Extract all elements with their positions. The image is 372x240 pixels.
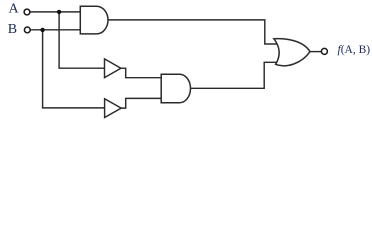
junction dot on A line	[57, 10, 61, 14]
input terminal B	[24, 27, 30, 33]
output terminal	[321, 48, 327, 54]
wire B input to AND1	[30, 29, 81, 31]
OR gate U5	[274, 39, 310, 66]
svg-text:A: A	[9, 2, 20, 17]
input terminal A	[24, 9, 30, 15]
wire A input to AND1	[30, 11, 82, 13]
AND gate U1	[80, 6, 108, 34]
wire AND1 output to OR top input	[108, 20, 277, 44]
wire buffer 1 output to AND2 top input	[121, 68, 163, 78]
wire AND2 output to OR bottom input	[191, 62, 279, 88]
AND gate U2	[161, 74, 190, 103]
svg-text:B: B	[8, 22, 17, 37]
wire A branch down to buffer 1 input	[59, 12, 105, 68]
wire OR output to terminal	[310, 51, 321, 53]
junction dot on B line	[40, 28, 44, 32]
buffer U4	[105, 99, 122, 118]
svg-text:f(A, B): f(A, B)	[338, 44, 371, 56]
buffer U3	[105, 59, 121, 78]
wire B branch down to buffer 2 input	[43, 30, 106, 108]
wire buffer 2 output to AND2 bottom input	[121, 98, 162, 108]
